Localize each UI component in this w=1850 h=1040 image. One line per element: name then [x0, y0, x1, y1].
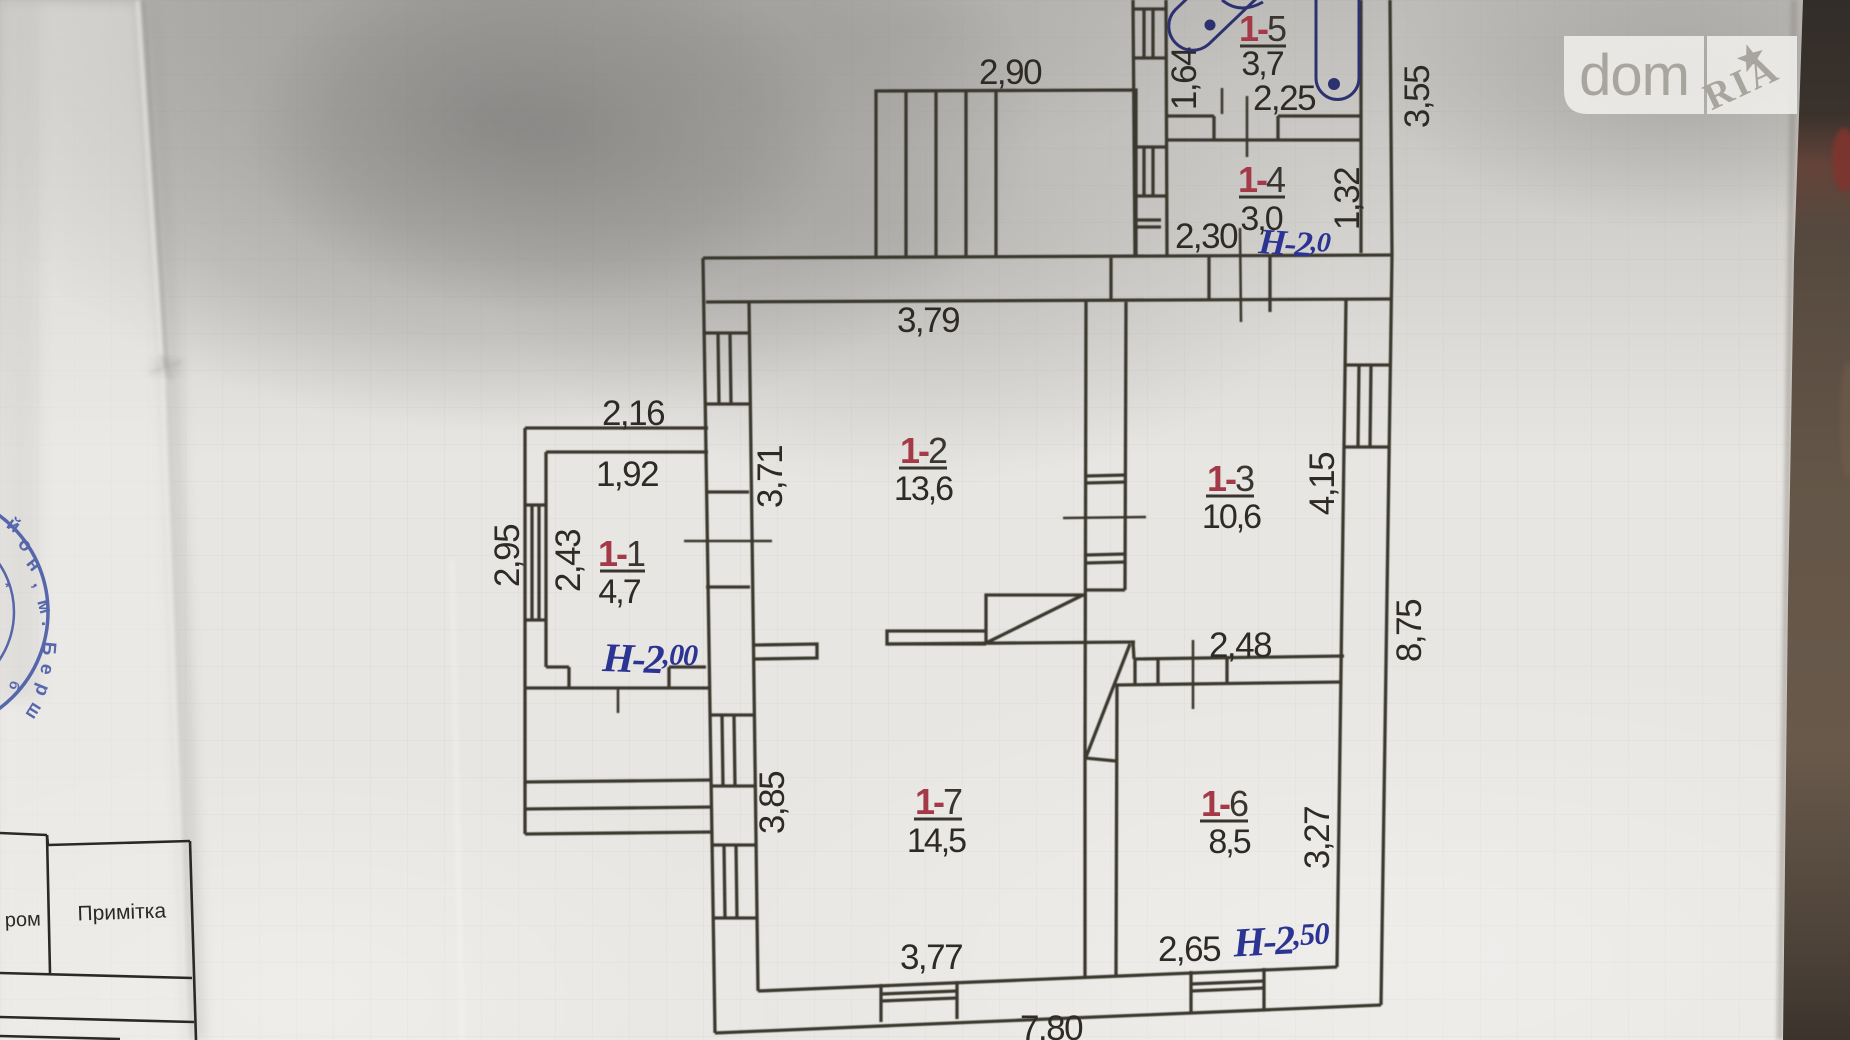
table step: [47, 835, 48, 845]
door tick 1-3/1-6: [1192, 640, 1195, 709]
window room 1-1 left: [525, 503, 546, 506]
partition 1-2/1-7 left bar: [755, 644, 817, 659]
crease dark crack line lower: [166, 365, 190, 1040]
wall main bottom inner: [758, 967, 1337, 991]
shadow blob 1: [0, 0, 1040, 430]
svg-text:3,7: 3,7: [1241, 45, 1283, 83]
bottom light: [600, 640, 1850, 1040]
stair diagonal 1: [986, 595, 1083, 643]
wall main left inner: [749, 302, 758, 991]
room 1-1 outer bottom: [525, 686, 708, 689]
svg-text:4,15: 4,15: [1303, 453, 1342, 515]
window main left wall lower: [711, 843, 755, 846]
window main right wall: [1345, 363, 1391, 366]
stair box between 1-2 and 1-7: [986, 595, 1085, 643]
svg-text:1-7: 1-7: [915, 781, 962, 822]
toilet fixture in bath 1-5: [1169, 0, 1359, 100]
dimension labels: [488, 47, 1437, 1040]
crease light line: [138, 0, 188, 1040]
svg-text:1-4: 1-4: [1238, 159, 1285, 200]
room 1-1 left outer wall: [523, 428, 526, 688]
wall main right inner: [1337, 299, 1346, 967]
wall 1-3/1-6 lower line: [1116, 682, 1341, 685]
svg-text:1-2: 1-2: [900, 430, 947, 471]
annex right outer wall: [1390, 0, 1392, 255]
annex top-right left outer wall: [1133, 0, 1135, 257]
svg-text:3,71: 3,71: [751, 446, 790, 508]
shadow wedge top-center: [590, 0, 1250, 155]
left edge subtle shade: [0, 0, 40, 700]
porch step 3: [525, 832, 712, 834]
wall between bath and 1-4 lower line: [1166, 138, 1361, 141]
table row line 2: [0, 1017, 194, 1022]
table line top-left: [0, 833, 47, 835]
svg-text:1,32: 1,32: [1328, 168, 1367, 230]
paper edge shade: [1780, 0, 1794, 1040]
annex top-right left inner wall: [1166, 0, 1167, 255]
wall main top inner: [706, 299, 1390, 302]
stamp outer ring: [0, 492, 48, 732]
wall 1-7/1-6 right line: [1116, 685, 1117, 977]
svg-text:ром: ром: [4, 908, 41, 931]
door jambs wall 1-2/1-3: [1086, 475, 1126, 476]
svg-text:8,75: 8,75: [1390, 600, 1429, 662]
svg-text:*: *: [5, 579, 11, 596]
svg-text:1,64: 1,64: [1165, 47, 1204, 110]
svg-text:13,6: 13,6: [894, 470, 953, 508]
shadow blob logo area: [1380, 0, 1850, 230]
RIA text: [1697, 47, 1786, 118]
right dark table-surface strip: [1783, 0, 1850, 1040]
RIA box: [1707, 36, 1797, 114]
wall main bottom outer: [715, 1005, 1381, 1033]
shadow blob 2: [470, 0, 1330, 490]
cistern curve top: [1222, 0, 1263, 8]
svg-text:1,92: 1,92: [596, 455, 658, 494]
room 1-1 inner top: [546, 450, 708, 453]
secondary faint fold right: [452, 560, 462, 1040]
wall main top outer: [703, 255, 1392, 258]
door tick left wall: [684, 540, 772, 543]
room 1-1 annex outer top: [525, 426, 708, 429]
table bottom row line: [0, 1036, 120, 1039]
door jambs room 1-1 bottom: [567, 667, 570, 688]
middle wall left line: [1085, 302, 1086, 758]
wall 1-7/1-6 left line: [1083, 758, 1086, 978]
room number labels red+dark: [598, 8, 1286, 861]
svg-text:10,6: 10,6: [1202, 498, 1261, 536]
crease dark crack line upper: [143, 0, 166, 365]
bath tub fixture: [1316, 0, 1359, 100]
door jamb right: [1268, 257, 1271, 312]
window bottom wall room 1-6: [1189, 971, 1192, 1013]
svg-text:2,43: 2,43: [549, 530, 588, 592]
svg-text:7,80: 7,80: [1020, 1009, 1083, 1040]
window main left wall upper: [704, 331, 749, 334]
door tick wall 1-2/1-3: [1063, 517, 1146, 518]
window annex left upper: [1133, 7, 1166, 10]
wall 1-7/1-6 cap: [1085, 758, 1116, 761]
door tick bath: [1246, 96, 1249, 157]
crease shadow band: [146, 0, 196, 1040]
svg-text:3,27: 3,27: [1298, 807, 1337, 869]
window bottom wall room 1-7: [879, 984, 882, 1022]
stair closet right edge: [1133, 642, 1134, 659]
stair diagonal 2: [1086, 644, 1130, 757]
porch stairs block top-left: [876, 90, 1136, 258]
table column divider: [47, 835, 50, 973]
svg-text:2,48: 2,48: [1209, 626, 1271, 665]
middle wall cap: [1085, 588, 1125, 591]
svg-text:Примітка: Примітка: [77, 899, 167, 925]
porch step 1: [525, 780, 712, 782]
top shadow: [0, 0, 1850, 460]
svg-text:8,5: 8,5: [1208, 823, 1250, 861]
dim tick 2,25: [1221, 88, 1224, 114]
svg-text:2,65: 2,65: [1158, 930, 1220, 969]
door jambs bath: [1212, 116, 1215, 140]
RIA star: [1734, 40, 1768, 74]
svg-text:2,16: 2,16: [602, 394, 664, 433]
door jambs top wall near stairs: [1109, 258, 1112, 300]
dom box: [1564, 36, 1704, 114]
bottom-left table: [0, 833, 196, 1040]
svg-text:3,85: 3,85: [753, 772, 792, 834]
table row line: [0, 973, 192, 978]
room 1-1 inner bottom: [546, 665, 569, 668]
stair box bottom: [887, 642, 1135, 644]
partition 1-2/1-7 right bar: [887, 631, 986, 644]
window annex left lower: [1135, 145, 1166, 148]
svg-text:1-5: 1-5: [1239, 8, 1286, 49]
table right border: [190, 841, 196, 1040]
door tick entry: [1240, 228, 1241, 322]
red streak on table surface: [1832, 128, 1850, 192]
door opening top wall (entry from 1-4) jamb left: [1207, 257, 1210, 300]
svg-text:3,77: 3,77: [900, 938, 962, 977]
svg-text:dom: dom: [1579, 43, 1689, 108]
annex right inner wall: [1359, 0, 1362, 253]
svg-text:1-1: 1-1: [598, 533, 645, 574]
svg-text:3,79: 3,79: [897, 301, 959, 340]
svg-text:3,55: 3,55: [1398, 66, 1437, 128]
porch below room 1-1: [523, 688, 526, 834]
svg-text:2,95: 2,95: [488, 525, 527, 587]
svg-text:14,5: 14,5: [907, 822, 966, 860]
stamp inner ring: [0, 526, 14, 698]
porch step 2: [525, 807, 712, 809]
svg-text:4,7: 4,7: [598, 573, 640, 611]
svg-text:2,90: 2,90: [979, 53, 1042, 92]
wall main right outer: [1381, 255, 1392, 1005]
FLOOR PLAN: [525, 0, 1392, 1033]
dom RIA watermark: [1564, 36, 1797, 119]
svg-text:Б: Б: [37, 641, 59, 656]
table line top-right: [48, 841, 190, 845]
wall 1-3/1-6 upper line: [1135, 656, 1344, 659]
door opening left wall to 1-1 jambs: [705, 490, 749, 493]
wall main left outer: [703, 258, 715, 1033]
paper fold crease highlight left: [0, 0, 193, 1040]
blue round stamp partial: [0, 492, 60, 732]
svg-text:2,30: 2,30: [1175, 217, 1238, 256]
room 1-1 left inner wall: [544, 452, 547, 667]
window main left wall middle: [709, 713, 753, 716]
svg-text:1-3: 1-3: [1207, 458, 1254, 499]
svg-text:1-6: 1-6: [1201, 783, 1248, 824]
stair treads: [904, 91, 907, 258]
door jambs 1-3/1-6: [1133, 659, 1136, 685]
door tick room 1-1: [617, 688, 620, 713]
svg-text:2,25: 2,25: [1253, 79, 1315, 118]
crease pinch: [151, 361, 181, 373]
middle wall right line: [1125, 302, 1126, 590]
small lines annex left wall bottom: [1135, 218, 1161, 221]
shadow blob 3 dark core: [245, 0, 845, 315]
wall between bath 1-5 and room 1-4 upper line: [1166, 114, 1214, 117]
handwritten blue notes: [601, 221, 1332, 966]
stamp ring letters: [2, 514, 59, 724]
